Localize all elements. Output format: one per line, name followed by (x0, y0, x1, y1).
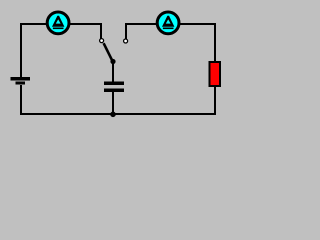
wire middle vertical below capacitor (112, 91, 114, 115)
wire switch left drop (100, 23, 102, 39)
wire switch right drop (125, 23, 127, 39)
wire top-left horizontal (20, 23, 102, 25)
wire middle vertical above capacitor (112, 62, 114, 82)
resistor R1 (210, 62, 221, 86)
ammeter A1 (47, 12, 69, 34)
wire right vertical lower (214, 87, 216, 115)
junction node (110, 112, 116, 118)
capacitor C1 (104, 81, 124, 92)
wire left vertical upper (20, 23, 22, 77)
wire top-right horizontal (125, 23, 216, 25)
wire left vertical lower (20, 85, 22, 115)
wire right vertical upper (214, 23, 216, 61)
battery B1 (10, 77, 30, 85)
switch S1 (SPDT, open) (100, 39, 128, 65)
wire bottom horizontal (20, 113, 216, 115)
ammeter A2 (157, 12, 179, 34)
